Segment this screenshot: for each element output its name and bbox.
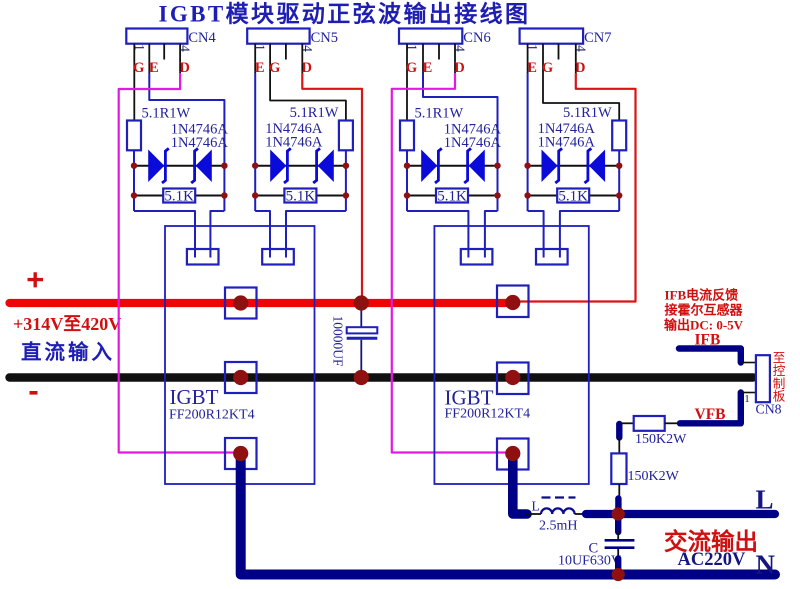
zener diode 1N4746A (CN4 right): [197, 151, 211, 180]
wire +bus to capacitor: [360, 303, 362, 328]
svg-text:直流输入: 直流输入: [21, 340, 115, 364]
svg-text:5.1R1W: 5.1R1W: [563, 105, 612, 121]
zener diode 1N4746A (CN4 left): [149, 151, 163, 180]
svg-text:1N4746A: 1N4746A: [171, 135, 229, 151]
CN4 pin 4 stub: [179, 44, 181, 73]
junction CN6 left-upper: [404, 163, 410, 169]
svg-text:L: L: [756, 485, 774, 515]
svg-text:输出DC: 0-5V: 输出DC: 0-5V: [664, 318, 744, 333]
wire 150K2W to VFB line: [665, 422, 680, 424]
CN4 pin 3 stub: [163, 44, 165, 60]
junction U2 collector: [505, 295, 520, 310]
wire U2 phase down to inductor: [513, 454, 527, 515]
terminal box module2 G1/E1: [461, 249, 493, 265]
CN7 pin 1 stub: [527, 44, 529, 73]
junction CN7 right-upper: [616, 163, 622, 169]
svg-text:4: 4: [453, 45, 468, 52]
svg-text:2.5mH: 2.5mH: [539, 519, 578, 534]
CN7 pin 4 stub: [575, 44, 577, 73]
svg-text:CN4: CN4: [188, 30, 216, 46]
svg-text:E: E: [527, 60, 537, 76]
svg-text:1N4746A: 1N4746A: [265, 135, 323, 151]
wire CN7 G pin jog to gate resistor: [543, 73, 619, 121]
CN6 pin 4 stub: [454, 44, 456, 73]
svg-text:4: 4: [300, 45, 315, 52]
wire CN4 right rail lower: [223, 166, 225, 211]
svg-text:控: 控: [773, 364, 786, 378]
junction CN5 left-upper: [252, 163, 258, 169]
connector CN5: [247, 29, 309, 44]
wire L node stub (navy): [615, 499, 621, 510]
wire CN7 left rail to module pin: [528, 211, 544, 258]
junction L output node: [612, 507, 625, 520]
terminal box U1 -DC: [225, 362, 257, 393]
junction CN6 right-lower: [494, 192, 500, 198]
svg-text:E: E: [423, 60, 433, 76]
CN7 pin 3 stub: [558, 44, 560, 60]
junction CN4 right-lower: [221, 192, 227, 198]
wire CN7 E pin to left rail: [527, 73, 529, 166]
wire CN6 left rail: [406, 150, 408, 211]
wire 150K2W to L node: [618, 484, 620, 499]
zener diode 1N4746A (CN7 right): [590, 151, 604, 180]
wire CN4 left rail to module pin: [134, 211, 195, 258]
IGBT module U1 outline: [165, 226, 315, 484]
CN7 pin 2 stub: [542, 44, 544, 73]
wire IFB (navy): [679, 349, 741, 363]
wire CN6 D to module2 phase (magenta): [392, 73, 509, 453]
resistor 5.1K (CN4): [163, 189, 195, 203]
junction CN6 right-upper: [494, 163, 500, 169]
svg-text:AC220V: AC220V: [678, 550, 746, 570]
wire 150K2W interlead: [618, 438, 620, 454]
svg-text:5.1K: 5.1K: [437, 189, 467, 205]
capacitor C plate1: [605, 539, 635, 542]
wire CN6 5.1K row: [407, 195, 498, 197]
wire capacitor C to N line (navy): [615, 559, 621, 571]
CN6 pin 3 stub: [438, 44, 440, 60]
wire CN5 G pin jog to gate resistor: [270, 73, 346, 121]
svg-text:至: 至: [773, 351, 786, 365]
wire CN5 right rail: [345, 150, 347, 211]
resistor 5.1R1W (CN4 gate): [127, 121, 141, 151]
svg-text:4: 4: [573, 45, 588, 52]
svg-text:5.1K: 5.1K: [164, 189, 194, 205]
zener diode 1N4746A (CN6 right): [470, 151, 484, 180]
terminal box U2 collector: [497, 286, 529, 318]
inductor L 2.5mH coil: [541, 508, 575, 514]
svg-text:1: 1: [132, 44, 147, 51]
svg-text:5.1K: 5.1K: [286, 189, 316, 205]
zener diode 1N4746A (CN5 left): [271, 151, 285, 180]
wire VFB node stub (navy): [616, 424, 622, 438]
junction +bus capacitor: [354, 295, 369, 310]
connector CN4: [126, 29, 187, 44]
label + plus: [28, 272, 44, 287]
junction CN6 left-lower: [404, 192, 410, 198]
CN5 pin 2 stub: [269, 44, 271, 73]
wire CN5 left rail lower: [254, 166, 256, 211]
svg-text:板: 板: [773, 390, 786, 404]
svg-text:IFB电流反馈: IFB电流反馈: [665, 288, 739, 303]
svg-text:150K2W: 150K2W: [635, 432, 687, 447]
wire CN4 zener row: [134, 165, 224, 167]
resistor 5.1R1W (CN7 gate): [612, 121, 626, 151]
svg-text:5.1K: 5.1K: [558, 189, 588, 205]
wire CN5 D to +bus (red): [302, 73, 362, 300]
junction CN5 left-lower: [252, 192, 258, 198]
wire -DC black bus: [10, 373, 754, 381]
wire capacitor C upper lead: [617, 531, 619, 539]
CN4 pin 2 stub: [148, 44, 150, 73]
junction -bus capacitor: [354, 370, 369, 385]
wire CN5 E pin to left rail: [254, 73, 256, 166]
wire CN6 right rail lower: [497, 166, 499, 211]
connector CN8: [756, 355, 770, 402]
label - minus: [30, 391, 38, 395]
wire CN7 D to module2 collector (red): [516, 73, 636, 302]
wire CN4 E pin jog to right rail: [149, 73, 224, 166]
terminal box module1 G1/E1: [187, 249, 219, 265]
junction CN7 right-lower: [616, 192, 622, 198]
wire CN4 G pin to gate resistor: [133, 73, 135, 121]
svg-text:5.1R1W: 5.1R1W: [142, 106, 191, 122]
junction U2 phase: [505, 446, 520, 461]
resistor 5.1R1W (CN5 gate): [339, 121, 353, 151]
svg-text:N: N: [756, 550, 776, 580]
wire VFB (navy): [680, 393, 741, 424]
svg-text:FF200R12KT4: FF200R12KT4: [445, 407, 531, 422]
wire CN7 5.1K row: [528, 195, 620, 197]
wire +DC red bus: [10, 299, 514, 307]
terminal box U2 phase: [497, 439, 529, 470]
svg-text:1N4746A: 1N4746A: [538, 135, 596, 151]
wire CN6 left rail to module pin: [407, 211, 468, 258]
resistor 5.1K (CN5): [284, 189, 316, 203]
wire CN4 left rail: [133, 150, 135, 211]
wire capacitor to -bus: [360, 340, 362, 378]
wire CN4 right rail to module pin: [210, 211, 224, 258]
terminal box U2 -DC: [497, 363, 529, 395]
wire CN5 right rail to module pin: [286, 211, 346, 258]
svg-text:CN6: CN6: [463, 30, 490, 46]
junction CN4 left-lower: [131, 192, 137, 198]
wire CN6 zener row: [407, 165, 498, 167]
junction CN7 left-upper: [524, 163, 530, 169]
wire VFB to CN8: [741, 392, 756, 394]
svg-text:L: L: [532, 499, 540, 514]
junction CN5 right-upper: [343, 163, 349, 169]
zener diode 1N4746A (CN5 right): [319, 151, 333, 180]
junction U2 -DC: [505, 370, 520, 385]
svg-text:10000UF: 10000UF: [331, 315, 346, 366]
terminal box module1 G2/E2: [262, 249, 294, 265]
CN4 pin 1 stub: [133, 44, 135, 73]
resistor 5.1K (CN7): [557, 189, 589, 203]
svg-text:1: 1: [525, 44, 540, 51]
CN6 pin 2 stub: [422, 44, 424, 73]
svg-text:FF200R12KT4: FF200R12KT4: [169, 408, 255, 423]
wire CN5 zener row: [255, 165, 346, 167]
svg-text:10UF630V: 10UF630V: [558, 554, 621, 569]
wire CN5 5.1K row: [255, 195, 346, 197]
resistor 150K2W (R-upper): [634, 416, 665, 431]
CN5 pin 4 stub: [301, 44, 303, 73]
svg-text:4: 4: [178, 45, 193, 52]
wire inductor lead left: [526, 513, 541, 515]
resistor 5.1R1W (CN6 gate): [400, 121, 414, 151]
resistor 150K2W (R-lower): [611, 453, 626, 484]
wire CN6 G pin to gate resistor: [406, 73, 408, 121]
zener diode 1N4746A (CN6 left): [422, 151, 436, 180]
svg-text:IGBT: IGBT: [170, 385, 219, 409]
wire lead to 150K2W horizontal: [619, 422, 633, 424]
CN5 pin 1 stub: [254, 44, 256, 73]
wire CN5 left rail to module pin: [255, 211, 270, 258]
svg-text:E: E: [149, 60, 159, 76]
svg-text:CN7: CN7: [584, 30, 611, 46]
capacitor C plate2: [605, 546, 635, 549]
junction CN4 left-upper: [131, 163, 137, 169]
wire CN7 right rail: [618, 150, 620, 211]
svg-text:CN8: CN8: [756, 402, 782, 417]
svg-text:5.1R1W: 5.1R1W: [290, 105, 339, 121]
wire L node to capacitor C: [615, 518, 621, 532]
svg-text:接霍尔互感器: 接霍尔互感器: [665, 303, 744, 318]
svg-text:VFB: VFB: [695, 406, 726, 423]
wire CN7 left rail lower: [527, 166, 529, 211]
wire inductor lead right: [575, 513, 588, 515]
connector CN7: [520, 29, 584, 44]
svg-text:1: 1: [744, 394, 749, 405]
svg-text:CN5: CN5: [311, 30, 338, 46]
wire IFB to CN8: [741, 362, 756, 364]
junction CN5 right-lower: [343, 192, 349, 198]
terminal box U1 phase: [225, 438, 257, 469]
wire CN4 D to module1 phase (magenta): [119, 73, 237, 453]
wire CN7 right rail to module pin: [560, 211, 619, 258]
svg-text:E: E: [255, 60, 265, 76]
junction N output node: [612, 568, 625, 581]
svg-text:1: 1: [253, 44, 268, 51]
wire capacitor C lower lead: [617, 549, 619, 559]
terminal box U1 collector: [225, 288, 257, 319]
svg-text:IGBT模块驱动正弦波输出接线图: IGBT模块驱动正弦波输出接线图: [159, 1, 531, 27]
CN6 pin 1 stub: [406, 44, 408, 73]
terminal box module2 G2/E2: [536, 249, 568, 265]
capacitor 10000UF plate-: [347, 337, 378, 340]
IGBT module U2 outline: [434, 226, 588, 484]
wire U1 phase to N line: [241, 454, 775, 575]
resistor 5.1K (CN6): [436, 189, 468, 203]
inductor core dashes: [542, 496, 576, 498]
junction CN4 right-upper: [221, 163, 227, 169]
junction CN7 left-lower: [524, 192, 530, 198]
wire CN7 zener row: [528, 165, 620, 167]
wire CN6 E pin jog to right rail: [423, 73, 498, 166]
junction U1 phase: [233, 446, 248, 461]
svg-text:150K2W: 150K2W: [628, 469, 680, 484]
capacitor 10000UF plate+: [347, 327, 378, 333]
svg-text:+314V至420V: +314V至420V: [13, 314, 121, 334]
connector CN6: [399, 29, 462, 44]
wire CN4 5.1K row: [134, 195, 224, 197]
svg-text:5.1R1W: 5.1R1W: [415, 106, 464, 122]
wire L output line: [586, 510, 775, 518]
wire CN6 right rail to module pin: [485, 211, 498, 258]
svg-text:1: 1: [405, 44, 420, 51]
junction U1 -DC: [233, 370, 248, 385]
svg-text:1N4746A: 1N4746A: [444, 135, 502, 151]
zener diode 1N4746A (CN7 left): [542, 151, 556, 180]
junction U1 collector: [233, 295, 248, 310]
CN5 pin 3 stub: [285, 44, 287, 60]
